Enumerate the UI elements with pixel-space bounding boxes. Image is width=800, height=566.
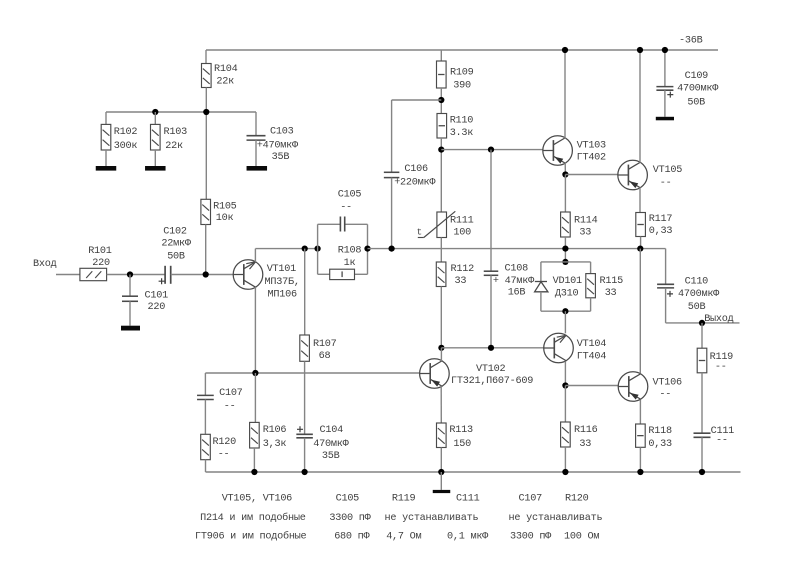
resistor R118 xyxy=(636,424,646,447)
wire xyxy=(253,448,255,472)
diode VD101 xyxy=(535,282,548,292)
transistor VT105 xyxy=(618,160,648,190)
wire input xyxy=(56,274,80,276)
junction xyxy=(302,469,308,475)
transistor VT103 xyxy=(543,136,573,166)
svg-text:t: t xyxy=(417,226,422,237)
wire xyxy=(564,386,566,423)
svg-text:16В: 16В xyxy=(508,288,526,299)
capacitor C109 xyxy=(656,87,673,91)
svg-text:50В: 50В xyxy=(167,252,185,263)
wire xyxy=(701,373,703,433)
wire VT106 emitter xyxy=(639,400,641,424)
svg-text:VT103: VT103 xyxy=(577,140,606,151)
svg-text:ГТ402: ГТ402 xyxy=(577,153,606,164)
svg-text:не устанавливать: не устанавливать xyxy=(509,513,603,524)
wire ground stub xyxy=(440,472,442,490)
svg-text:C101: C101 xyxy=(145,290,169,301)
svg-text:МП106: МП106 xyxy=(268,290,297,301)
wire xyxy=(304,249,306,335)
svg-text:R111: R111 xyxy=(450,215,474,226)
svg-text:R113: R113 xyxy=(449,425,473,436)
svg-text:--: -- xyxy=(224,401,236,412)
svg-text:22к: 22к xyxy=(216,77,234,88)
svg-text:+470мкФ: +470мкФ xyxy=(257,141,299,152)
wire VT103 emitter xyxy=(564,163,566,175)
svg-text:220: 220 xyxy=(92,258,110,269)
svg-text:470мкФ: 470мкФ xyxy=(313,439,349,450)
svg-text:C109: C109 xyxy=(685,71,709,82)
svg-text:50В: 50В xyxy=(687,97,705,108)
wire crossing output rail xyxy=(440,238,442,263)
junction VT103 base xyxy=(438,147,444,153)
wire VT103 collector xyxy=(564,50,566,138)
wire VT102 base line xyxy=(205,372,419,374)
junction xyxy=(389,246,395,252)
wire VT105 collector xyxy=(639,50,641,163)
svg-text:VT102: VT102 xyxy=(476,364,505,375)
svg-text:Выход: Выход xyxy=(704,314,733,325)
wire VT101 upper lead xyxy=(254,249,256,262)
wire xyxy=(701,437,703,472)
wire xyxy=(204,400,206,435)
svg-text:Вход: Вход xyxy=(33,259,57,270)
junction xyxy=(562,171,568,177)
svg-text:МП37Б,: МП37Б, xyxy=(265,277,300,288)
ground R102 xyxy=(96,166,117,171)
wire bottom common rail xyxy=(206,471,741,473)
resistor R120 xyxy=(201,434,211,459)
capacitor C111 xyxy=(694,433,711,437)
capacitor C101 xyxy=(122,296,138,301)
svg-text:ГТ404: ГТ404 xyxy=(577,352,606,363)
wire to VT104 xyxy=(564,311,566,333)
wire xyxy=(440,348,442,361)
ground bottom xyxy=(433,490,451,493)
svg-text:R119: R119 xyxy=(392,494,416,505)
svg-text:1к: 1к xyxy=(344,258,356,269)
junction xyxy=(699,469,705,475)
junction output xyxy=(699,320,705,326)
svg-text:35В: 35В xyxy=(272,152,290,163)
svg-text:R109: R109 xyxy=(450,68,474,79)
junction xyxy=(251,469,257,475)
capacitor C107 xyxy=(197,395,214,399)
resistor R117 xyxy=(636,213,646,237)
capacitor C102 xyxy=(165,266,171,284)
svg-text:0,33: 0,33 xyxy=(648,439,672,450)
resistor R104 xyxy=(202,64,212,88)
resistor R103 xyxy=(151,124,161,150)
svg-text:3300 пФ: 3300 пФ xyxy=(329,513,371,524)
resistor R113 xyxy=(437,423,447,448)
svg-text:220: 220 xyxy=(148,302,166,313)
wire VT105 base line xyxy=(565,174,618,176)
ground C103 xyxy=(247,166,267,171)
wire xyxy=(318,223,341,225)
wire -36V top rail xyxy=(206,49,718,51)
wire to C110 xyxy=(665,249,667,285)
wire xyxy=(254,373,256,422)
svg-text:C102: C102 xyxy=(163,227,187,238)
wire VT101 lower lead xyxy=(254,287,256,373)
svg-text:3.3к: 3.3к xyxy=(450,128,474,139)
junction xyxy=(488,147,494,153)
svg-text:C105: C105 xyxy=(336,494,360,505)
wire VT104 base line xyxy=(441,347,543,349)
svg-text:--: -- xyxy=(340,202,352,213)
wire parallel left side xyxy=(317,224,319,274)
wire xyxy=(640,237,642,249)
svg-text:22к: 22к xyxy=(165,141,183,152)
wire xyxy=(540,262,542,282)
wire xyxy=(440,138,442,212)
resistor R109 xyxy=(437,61,447,88)
svg-text:R103: R103 xyxy=(164,127,188,138)
svg-text:C111: C111 xyxy=(456,494,480,505)
resistor R119 xyxy=(697,348,707,373)
resistor R106 xyxy=(250,422,260,448)
wire xyxy=(204,373,206,395)
wire bias node horizontal xyxy=(106,111,256,113)
svg-text:C110: C110 xyxy=(685,277,709,288)
svg-text:--: -- xyxy=(660,178,672,189)
thermistor R111 xyxy=(418,211,456,237)
wire xyxy=(304,361,306,434)
junction xyxy=(488,345,494,351)
svg-text:680 пФ: 680 пФ xyxy=(334,532,370,543)
wire xyxy=(664,50,666,87)
wire xyxy=(129,301,131,325)
svg-text:0,1 мкФ: 0,1 мкФ xyxy=(447,532,489,543)
svg-text:33: 33 xyxy=(455,276,467,287)
svg-text:ГТ906 и им подобные: ГТ906 и им подобные xyxy=(195,530,307,543)
wire xyxy=(345,223,368,225)
resistor R105 xyxy=(201,199,211,224)
svg-text:R115: R115 xyxy=(600,276,624,287)
wire VT103 base line xyxy=(441,149,543,151)
svg-text:Д310: Д310 xyxy=(555,288,579,299)
junction VT102 collector xyxy=(438,345,444,351)
junction xyxy=(662,47,668,53)
svg-text:R116: R116 xyxy=(574,425,598,436)
svg-text:4,7 Ом: 4,7 Ом xyxy=(386,532,421,543)
wire xyxy=(105,112,107,124)
junction xyxy=(562,382,568,388)
svg-text:--: -- xyxy=(218,450,230,461)
svg-text:VT105: VT105 xyxy=(653,165,682,176)
resistor R108 xyxy=(330,269,355,279)
svg-text:R110: R110 xyxy=(450,116,474,127)
wire xyxy=(490,275,492,348)
svg-text:VT105, VT106: VT105, VT106 xyxy=(222,494,292,505)
wire xyxy=(564,175,566,213)
junction xyxy=(562,308,568,314)
svg-text:ГТ321,П607-609: ГТ321,П607-609 xyxy=(451,376,533,387)
svg-text:68: 68 xyxy=(319,351,331,362)
ground C101 xyxy=(121,326,140,331)
svg-text:--: -- xyxy=(716,436,728,447)
capacitor C108 xyxy=(484,271,499,275)
wire xyxy=(255,112,257,136)
svg-text:4700мкФ: 4700мкФ xyxy=(678,289,720,300)
svg-text:VT106: VT106 xyxy=(653,377,682,388)
svg-text:R114: R114 xyxy=(574,215,598,226)
wire xyxy=(205,460,207,472)
wire xyxy=(701,323,703,348)
svg-text:33: 33 xyxy=(605,288,617,299)
svg-text:--: -- xyxy=(659,389,671,400)
svg-text:C107: C107 xyxy=(519,494,543,505)
wire xyxy=(665,288,667,323)
junction xyxy=(637,246,643,252)
resistor R116 xyxy=(561,422,571,447)
svg-text:3,3к: 3,3к xyxy=(263,439,287,450)
capacitor C104 xyxy=(296,434,313,438)
wire xyxy=(171,274,234,276)
wire xyxy=(440,50,442,61)
wire xyxy=(391,178,393,249)
svg-text:R102: R102 xyxy=(114,127,138,138)
wire VT106 base line xyxy=(565,385,618,387)
junction VD box top xyxy=(562,259,568,265)
svg-text:33: 33 xyxy=(579,227,591,238)
svg-text:R101: R101 xyxy=(88,246,112,257)
wire VD box bottom xyxy=(541,310,591,312)
junction R105 to base xyxy=(203,271,209,277)
transistor VT102 xyxy=(420,359,450,389)
junction xyxy=(438,469,444,475)
wire xyxy=(639,447,641,472)
junction node input xyxy=(127,271,133,277)
svg-text:VD101: VD101 xyxy=(553,276,582,287)
wire xyxy=(490,150,492,272)
svg-text:390: 390 xyxy=(453,80,471,91)
resistor R114 xyxy=(561,212,571,237)
svg-text:R120: R120 xyxy=(565,494,589,505)
svg-text:R105: R105 xyxy=(213,202,237,213)
svg-text:C104: C104 xyxy=(320,425,344,436)
svg-text:R117: R117 xyxy=(649,214,673,225)
svg-text:C108: C108 xyxy=(505,263,529,274)
svg-text:100 Ом: 100 Ом xyxy=(564,532,599,543)
svg-text:C106: C106 xyxy=(404,164,428,175)
wire xyxy=(105,150,107,166)
ground R103 xyxy=(145,166,166,171)
svg-text:-36В: -36В xyxy=(679,35,703,46)
junction xyxy=(364,246,370,252)
capacitor C106 xyxy=(384,172,400,177)
svg-text:VT101: VT101 xyxy=(267,264,296,275)
svg-text:+220мкФ: +220мкФ xyxy=(394,178,436,189)
wire xyxy=(304,438,306,472)
svg-text:22мкФ: 22мкФ xyxy=(161,239,191,250)
wire xyxy=(205,88,207,200)
wire xyxy=(107,274,165,276)
transistor VT101 xyxy=(233,260,263,290)
wire xyxy=(540,292,542,311)
wire xyxy=(154,150,156,166)
resistor R112 xyxy=(436,262,446,287)
ground C109 xyxy=(656,117,674,121)
svg-text:R104: R104 xyxy=(214,64,238,75)
wire xyxy=(391,100,393,172)
svg-text:R120: R120 xyxy=(213,437,237,448)
wire VT104 lower lead xyxy=(564,361,566,385)
wire to feedback network xyxy=(255,248,317,250)
svg-text:R108: R108 xyxy=(338,245,362,256)
resistor R110 xyxy=(437,114,447,139)
capacitor C110 xyxy=(657,284,674,288)
wire xyxy=(590,262,592,274)
junction xyxy=(562,469,568,475)
wire xyxy=(440,448,442,473)
node feedback left xyxy=(302,246,308,252)
resistor R102 xyxy=(101,124,111,150)
svg-text:+ 47мкФ: + 47мкФ xyxy=(493,276,535,287)
transistor VT106 xyxy=(618,372,648,402)
svg-text:50В: 50В xyxy=(688,302,706,313)
wire xyxy=(440,88,442,114)
wire xyxy=(355,273,368,275)
wire VT102 emitter xyxy=(440,386,442,423)
wire xyxy=(318,273,330,275)
wire output node rail xyxy=(368,248,666,250)
svg-text:35В: 35В xyxy=(322,451,340,462)
svg-text:100: 100 xyxy=(453,227,471,238)
svg-text:C107: C107 xyxy=(219,388,243,399)
junction xyxy=(152,109,158,115)
wire xyxy=(255,140,257,166)
svg-text:П214 и им подобные: П214 и им подобные xyxy=(200,511,306,524)
resistor R115 xyxy=(586,274,596,298)
wire parallel right side xyxy=(367,224,369,274)
svg-text:R118: R118 xyxy=(648,426,672,437)
wire xyxy=(129,275,131,297)
resistor R107 xyxy=(300,335,310,361)
svg-text:не устанавливать: не устанавливать xyxy=(385,513,479,524)
svg-text:C105: C105 xyxy=(338,190,362,201)
svg-text:300к: 300к xyxy=(114,141,138,152)
svg-text:R112: R112 xyxy=(451,264,475,275)
junction bootstrap xyxy=(438,97,444,103)
svg-text:R106: R106 xyxy=(263,425,287,436)
wire xyxy=(564,237,566,262)
capacitor C105 xyxy=(340,217,344,232)
capacitor C103 xyxy=(247,136,266,140)
svg-text:3300 пФ: 3300 пФ xyxy=(510,532,552,543)
svg-text:33: 33 xyxy=(579,439,591,450)
wire to C106 xyxy=(392,99,442,101)
svg-text:VT104: VT104 xyxy=(577,339,606,350)
wire xyxy=(440,287,442,348)
svg-text:R107: R107 xyxy=(313,339,337,350)
svg-text:C103: C103 xyxy=(270,127,294,138)
junction xyxy=(203,109,209,115)
transistor VT104 xyxy=(544,333,574,363)
wire xyxy=(205,50,207,64)
junction output rail xyxy=(562,246,568,252)
wire VD box top xyxy=(541,261,591,263)
junction xyxy=(637,47,643,53)
junction xyxy=(637,469,643,475)
junction xyxy=(252,370,258,376)
svg-text:4700мкФ: 4700мкФ xyxy=(677,84,719,95)
wire output xyxy=(666,322,740,324)
wire VT105 emitter xyxy=(639,187,641,212)
wire xyxy=(590,298,592,311)
svg-text:150: 150 xyxy=(453,439,471,450)
wire xyxy=(664,90,666,117)
resistor R101 xyxy=(80,268,107,280)
wire xyxy=(564,447,566,472)
wire xyxy=(154,112,156,124)
junction xyxy=(562,47,568,53)
wire xyxy=(205,225,207,275)
svg-text:0,33: 0,33 xyxy=(649,226,673,237)
wire VT106 collector xyxy=(639,249,641,374)
svg-text:--: -- xyxy=(715,362,727,373)
svg-text:10к: 10к xyxy=(216,213,234,224)
